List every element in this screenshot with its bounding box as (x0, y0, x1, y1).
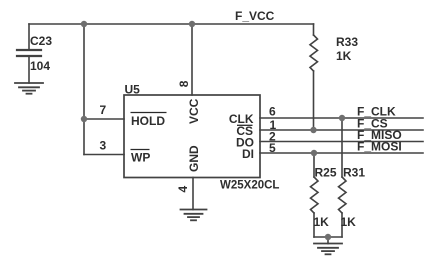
ground (below U5 pin 4) (181, 210, 207, 221)
svg-text:1K: 1K (336, 49, 352, 63)
wire net F_MOSI (pin 5) (260, 152, 423, 154)
wire pin 7 stub (84, 118, 124, 120)
svg-text:6: 6 (269, 105, 276, 119)
svg-text:HOLD: HOLD (131, 114, 165, 128)
svg-text:4: 4 (176, 186, 190, 193)
IC U5 body (124, 95, 260, 178)
ground (below C23) (15, 83, 43, 94)
svg-text:W25X20CL: W25X20CL (220, 179, 279, 191)
overline CS (237, 124, 253, 126)
wire ground stub (327, 237, 329, 244)
svg-text:R33: R33 (336, 35, 358, 49)
wire C23 bottom lead (28, 56, 30, 83)
wire R31 top lead from F_CLK (341, 118, 343, 177)
svg-text:F_VCC: F_VCC (235, 9, 275, 23)
junction top rail / left branch (81, 21, 87, 27)
svg-text:WP: WP (131, 151, 150, 165)
svg-text:1K: 1K (314, 215, 330, 229)
wire left vertical branch (83, 24, 85, 155)
svg-text:DI: DI (242, 147, 254, 161)
ground (below R25 R31) (314, 244, 342, 255)
wire R33 top lead (313, 24, 315, 35)
wire net F_CS (pin 1) (260, 129, 423, 131)
svg-text:GND: GND (187, 145, 201, 172)
wire net F_MISO (pin 2) (260, 141, 423, 143)
svg-text:F_MOSI: F_MOSI (357, 140, 402, 154)
svg-text:3: 3 (100, 139, 107, 153)
wire R33 bottom lead to F_CS (313, 71, 315, 130)
svg-text:R25: R25 (315, 166, 337, 180)
wire R25 top lead from F_MOSI (313, 153, 315, 177)
junction R31 / F_CLK (339, 115, 345, 121)
junction R33 / F_CS (310, 127, 316, 133)
svg-text:R31: R31 (343, 166, 365, 180)
svg-text:U5: U5 (125, 83, 141, 97)
svg-text:7: 7 (100, 103, 107, 117)
overline HOLD (131, 112, 167, 114)
svg-text:C23: C23 (30, 34, 52, 48)
resistor R31 (339, 177, 347, 213)
junction ground bus (325, 234, 331, 240)
junction left branch / pin 7 (81, 116, 87, 122)
resistor R25 (311, 177, 319, 213)
wire F_VCC top rail (29, 23, 314, 25)
resistor R33 (310, 35, 318, 71)
junction R25 / F_MOSI (311, 150, 317, 156)
svg-text:5: 5 (269, 141, 276, 155)
wire R25 bottom lead (313, 213, 315, 237)
overline WP (131, 149, 150, 151)
wire net F_CLK (pin 6) (260, 117, 423, 119)
wire pin 3 stub (84, 154, 124, 156)
wire C23 top lead (28, 24, 30, 50)
svg-text:8: 8 (177, 80, 191, 87)
wire pin 8 lead (191, 24, 193, 95)
svg-text:1K: 1K (341, 215, 357, 229)
wire R31 bottom lead (341, 213, 343, 237)
wire pin 4 lead (192, 178, 194, 210)
junction top rail / pin 8 (189, 21, 195, 27)
svg-text:VCC: VCC (187, 98, 201, 124)
svg-text:104: 104 (30, 59, 50, 73)
wire resistor ground bus (314, 236, 342, 238)
capacitor C23 (17, 50, 41, 56)
